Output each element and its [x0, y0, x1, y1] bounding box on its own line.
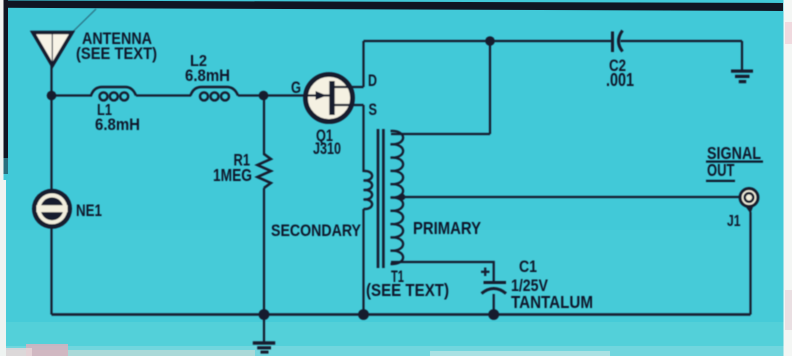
capacitor C2	[613, 31, 623, 53]
svg-text:.001: .001	[606, 70, 634, 90]
wire R1 bottom lead	[263, 188, 265, 315]
wire NE1 top lead	[50, 96, 52, 193]
capacitor C1 polarity +	[481, 268, 490, 277]
ground (bottom centre)	[253, 341, 275, 353]
svg-text:C1: C1	[519, 257, 537, 276]
wire gate node to Q1	[264, 94, 318, 96]
wire L2 to gate node	[238, 94, 264, 96]
antenna AN1 lead wire	[50, 64, 52, 96]
wire C1 bottom lead	[493, 294, 495, 315]
node bottom bus secondary	[358, 309, 369, 320]
capacitor C1	[482, 283, 507, 294]
svg-text:SECONDARY: SECONDARY	[271, 222, 361, 240]
wire drain riser	[362, 41, 364, 87]
antenna symbol	[33, 9, 96, 66]
wire L1 to L2	[136, 94, 191, 96]
neon lamp NE1	[32, 189, 72, 229]
wire top bus left of C2	[364, 40, 612, 42]
svg-text:G: G	[291, 78, 301, 97]
svg-text:J310: J310	[313, 139, 341, 158]
wire top row: node to L1	[52, 94, 93, 96]
resistor R1	[258, 154, 271, 188]
svg-text:6.8mH: 6.8mH	[95, 115, 140, 134]
Q1 drain lead	[335, 86, 364, 88]
svg-text:(SEE TEXT): (SEE TEXT)	[76, 44, 157, 63]
svg-text:6.8mH: 6.8mH	[185, 66, 230, 85]
wire primary top to riser	[391, 133, 490, 135]
svg-text:TANTALUM: TANTALUM	[511, 292, 593, 312]
Q1 source lead	[335, 104, 364, 106]
node antenna junction	[47, 91, 57, 101]
wire riser node to primary top	[489, 41, 491, 134]
svg-text:S: S	[369, 100, 378, 119]
node bottom bus R1/ground	[259, 309, 270, 320]
wire ground stub bottom	[263, 315, 265, 343]
page frame (decorative)	[0, 1, 783, 12]
svg-text:D: D	[368, 71, 377, 90]
svg-text:NE1: NE1	[76, 202, 102, 220]
wire primary bottom to C1	[391, 262, 494, 281]
svg-text:OUT: OUT	[707, 160, 735, 180]
node gate/R1 junction	[259, 91, 269, 101]
wire NE1 bottom lead	[50, 227, 52, 315]
wire ground drop top-right	[741, 41, 743, 70]
wire R1 top lead	[263, 96, 265, 156]
wire top bus right of C2	[621, 40, 743, 42]
svg-text:(SEE TEXT): (SEE TEXT)	[366, 280, 449, 300]
inductor L2	[191, 87, 239, 100]
svg-text:1MEG: 1MEG	[213, 165, 252, 185]
svg-text:J1: J1	[727, 213, 741, 230]
wire J1 drop	[749, 212, 751, 315]
inductor L1	[91, 87, 136, 100]
wire bottom bus	[52, 313, 751, 316]
node top bus junction	[485, 36, 495, 46]
transformer T1 primary winding	[391, 131, 404, 264]
node bottom bus C1	[488, 309, 499, 320]
transformer T1 core	[378, 129, 383, 268]
jack J1	[740, 189, 758, 214]
label SIGNAL OUT	[706, 143, 763, 182]
node primary tap	[398, 194, 405, 201]
transistor Q1	[306, 75, 364, 122]
transformer T1 secondary winding	[364, 171, 373, 209]
wire tap to J1	[402, 196, 740, 198]
wire source drop to secondary	[362, 105, 364, 172]
ground (top right)	[731, 70, 753, 84]
wire secondary bottom drop	[362, 209, 364, 315]
svg-text:PRIMARY: PRIMARY	[413, 218, 481, 238]
